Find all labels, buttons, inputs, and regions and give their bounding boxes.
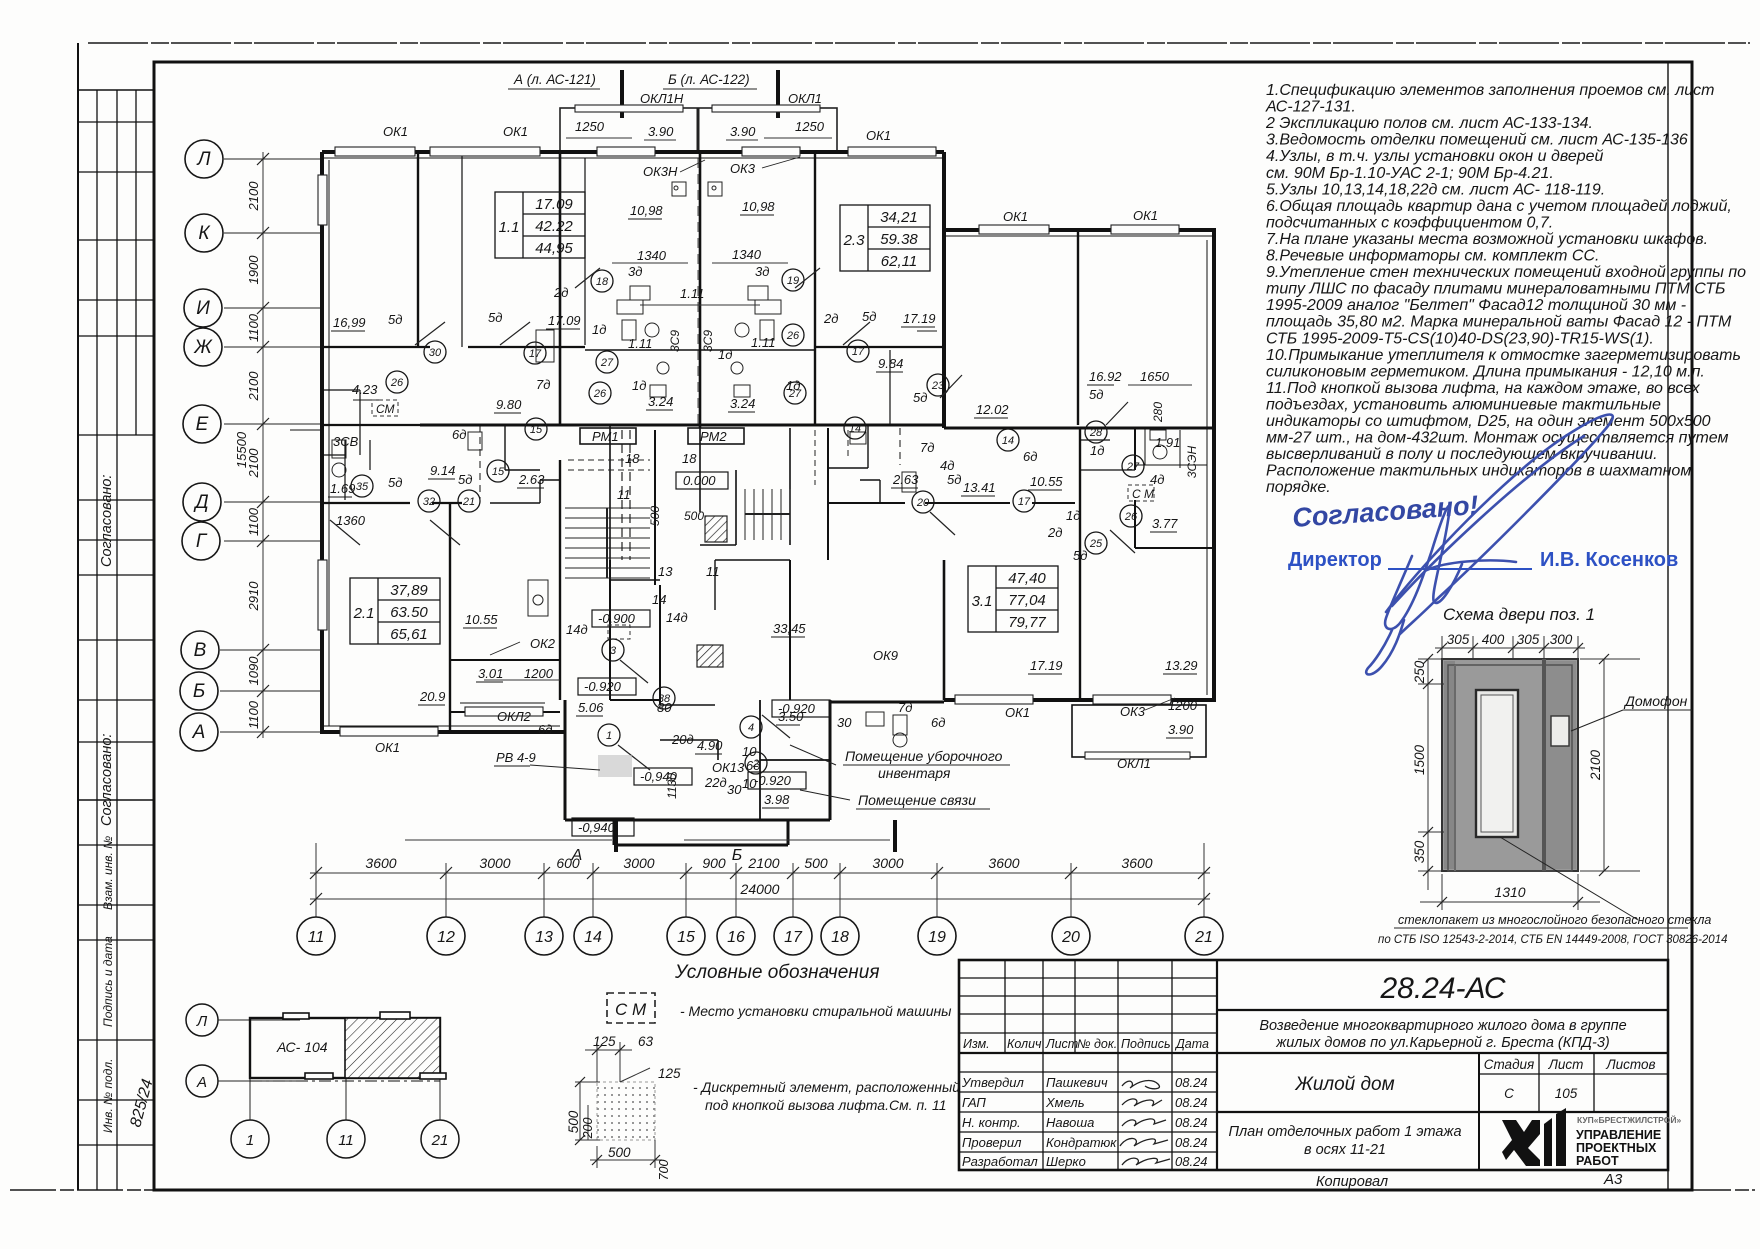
svg-text:в осях 11-21: в осях 11-21 [1304,1142,1386,1158]
svg-text:5д: 5д [388,312,402,327]
svg-text:47,40: 47,40 [1008,570,1046,587]
РМ1 РМ2 boxes [580,428,636,444]
svg-text:ОК13: ОК13 [712,760,745,775]
svg-text:№ док.: № док. [1077,1037,1117,1051]
svg-text:28: 28 [1089,427,1103,439]
svg-text:42.22: 42.22 [535,218,573,235]
svg-text:подсчитанных с коэффициентом 0: подсчитанных с коэффициентом 0,7. [1266,214,1553,231]
svg-text:жилых домов по ул.Карьерной г: жилых домов по ул.Карьерной г. Бреста (К… [1275,1035,1609,1051]
lower band: room 10.55 / ОК2 [450,659,560,661]
svg-text:Шерко: Шерко [1046,1154,1086,1169]
svg-text:1: 1 [606,730,612,742]
svg-text:18: 18 [831,929,849,946]
svg-text:-0,940: -0,940 [578,820,616,835]
svg-text:30: 30 [429,347,442,359]
svg-text:6д: 6д [538,722,552,737]
svg-text:2.3: 2.3 [843,232,866,249]
svg-text:500: 500 [804,855,828,871]
svg-text:5д: 5д [1073,548,1087,563]
svg-text:ОК9: ОК9 [873,648,898,663]
svg-text:13: 13 [658,564,673,579]
svg-text:Разработал: Разработал [962,1154,1038,1169]
leader text right of protrusion [845,748,1003,808]
intercom [1551,716,1569,746]
svg-text:17.19: 17.19 [903,311,936,326]
svg-text:350: 350 [1412,840,1427,863]
corridor band extra walls/fixtures [360,425,900,503]
svg-text:Согласовано:: Согласовано: [99,734,115,826]
svg-text:5д: 5д [1089,387,1103,402]
svg-text:6д: 6д [931,715,945,730]
Ж axis wall [322,346,430,348]
ticks [257,153,269,738]
svg-text:1.11: 1.11 [628,336,652,351]
svg-text:ОК1: ОК1 [866,128,891,143]
left signature table [959,960,1217,1170]
svg-text:3000: 3000 [872,855,903,871]
svg-text:10,98: 10,98 [742,199,775,214]
svg-text:1090: 1090 [246,656,261,686]
svg-text:ОК1: ОК1 [375,740,400,755]
svg-text:59.38: 59.38 [880,231,918,248]
svg-text:7д: 7д [898,700,912,715]
Стадия Лист Листов [1478,1053,1480,1112]
svg-text:3.24: 3.24 [648,394,673,409]
svg-text:Б: Б [732,847,742,864]
svg-text:ОК3: ОК3 [1120,704,1146,719]
svg-text:РМ2: РМ2 [700,429,727,444]
svg-text:400: 400 [1482,632,1505,647]
svg-text:08.24: 08.24 [1175,1135,1208,1150]
svg-text:500: 500 [648,506,662,526]
top outer wall [322,150,944,154]
svg-text:13.29: 13.29 [1165,658,1198,673]
svg-text:Колич: Колич [1007,1037,1042,1051]
svg-text:- Дискретный элемент, располож: - Дискретный элемент, расположенный [693,1079,960,1095]
svg-text:-0,940: -0,940 [640,769,678,784]
svg-text:под кнопкой вызова лифта.См. п: под кнопкой вызова лифта.См. п. 11 [705,1097,946,1113]
svg-text:20: 20 [1061,929,1080,946]
svg-text:ПРОЕКТНЫХ: ПРОЕКТНЫХ [1576,1141,1657,1155]
svg-text:Согласовано!: Согласовано! [1291,490,1479,533]
svg-text:1д: 1д [592,322,606,337]
window labels row [375,124,1158,775]
svg-text:- Место установки стиральной м: - Место установки стиральной машины [680,1003,952,1019]
room 2.1 walls [449,503,451,732]
svg-text:700: 700 [657,1160,671,1181]
svg-text:Лист: Лист [1548,1057,1584,1072]
svg-text:Взам. инв. №: Взам. инв. № [101,836,115,910]
axis circles [297,917,1223,955]
small door-swing ticks [330,268,1135,770]
svg-text:3С9: 3С9 [668,330,682,352]
svg-text:1д: 1д [718,347,732,362]
svg-text:3.1: 3.1 [972,593,993,610]
svg-text:9.80: 9.80 [496,397,522,412]
svg-text:мм-27 шт., на дом-432шт. Монта: мм-27 шт., на дом-432шт. Монтаж осуществ… [1266,430,1728,447]
svg-text:Дата: Дата [1174,1037,1209,1051]
svg-text:11: 11 [617,487,631,502]
right part [1217,1009,1668,1011]
svg-text:9.84: 9.84 [878,356,903,371]
svg-text:Ж: Ж [193,337,213,358]
svg-text:37,89: 37,89 [390,582,428,599]
svg-text:0.000: 0.000 [683,473,716,488]
svg-text:ОК1: ОК1 [503,124,528,139]
svg-text:Кондратюк: Кондратюк [1046,1135,1117,1150]
svg-text:2910: 2910 [246,581,261,612]
right stair walls [789,428,791,545]
svg-text:ОК2: ОК2 [530,636,556,651]
leader lines for window labels [490,157,1175,710]
svg-text:3.90: 3.90 [730,124,756,139]
top dim chain [1435,636,1585,658]
svg-text:В: В [194,640,207,661]
svg-text:17.09: 17.09 [548,313,581,328]
svg-text:3.01: 3.01 [478,666,503,681]
svg-text:1: 1 [246,1132,254,1149]
svg-text:28.24-АС: 28.24-АС [1379,972,1505,1005]
Е axis corridor wall [420,424,944,427]
svg-text:Помещение связи: Помещение связи [858,792,976,808]
svg-text:125: 125 [658,1066,681,1081]
left dim chain [1418,659,1444,890]
top balcony (loggia) box [560,108,837,152]
svg-text:4.23: 4.23 [352,382,378,397]
dim chain line 2 [310,898,1210,900]
svg-text:21: 21 [431,1132,449,1149]
svg-text:18: 18 [625,451,640,466]
rotated dim labels [234,181,261,729]
svg-text:12.02: 12.02 [976,402,1009,417]
svg-text:Утвердил: Утвердил [961,1075,1025,1090]
svg-text:ОК3Н: ОК3Н [643,164,678,179]
svg-text:АС- 104: АС- 104 [276,1039,328,1055]
СМ symbol [607,993,655,1023]
svg-text:2 Экспликацию полов см. лист А: 2 Экспликацию полов см. лист АС-133-134. [1265,115,1593,132]
bottom scan edge line [10,1189,1755,1191]
svg-text:30: 30 [727,782,742,797]
svg-text:Л: Л [196,1013,208,1030]
svg-text:33,45: 33,45 [773,621,806,636]
svg-text:15: 15 [492,466,505,478]
svg-text:3600: 3600 [1121,855,1152,871]
svg-text:14: 14 [849,423,861,435]
svg-text:27: 27 [788,388,802,400]
svg-text:2д: 2д [823,311,838,326]
svg-text:ОКЛ1: ОКЛ1 [788,91,822,106]
svg-text:3: 3 [610,645,617,657]
svg-text:3000: 3000 [623,855,654,871]
svg-text:20.9: 20.9 [419,689,445,704]
svg-text:34,21: 34,21 [880,209,918,226]
glass note [1500,837,1638,920]
svg-text:14д: 14д [566,622,588,637]
handwritten signatures in Подпись column [1120,1081,1170,1165]
svg-text:1360: 1360 [336,513,366,528]
svg-text:08.24: 08.24 [1175,1075,1208,1090]
svg-text:РВ 4-9: РВ 4-9 [496,750,536,765]
svg-text:ОКЛ1: ОКЛ1 [1117,756,1151,771]
svg-text:3д: 3д [628,264,642,279]
svg-text:И.В. Косенков: И.В. Косенков [1540,549,1678,571]
svg-text:3600: 3600 [365,855,396,871]
svg-text:стеклопакет из многослойного б: стеклопакет из многослойного безопасного… [1398,913,1711,927]
svg-text:1995-2009 аналог "Белтеп" Фаса: 1995-2009 аналог "Белтеп" Фасад12 толщин… [1266,297,1686,314]
right inner double line [1667,62,1669,1190]
svg-text:26: 26 [1124,511,1138,523]
svg-text:РАБОТ: РАБОТ [1576,1154,1619,1168]
door body [1442,659,1578,871]
svg-text:Г: Г [196,531,208,552]
verticals from circles to lines [316,843,1204,917]
svg-text:4: 4 [748,722,754,734]
svg-text:Б: Б [193,681,205,702]
svg-text:20д: 20д [671,732,694,747]
svg-text:200: 200 [581,1118,595,1140]
svg-text:6д: 6д [452,427,466,442]
svg-text:1.1: 1.1 [499,219,520,236]
svg-text:Домофон: Домофон [1623,693,1688,709]
svg-text:Л: Л [195,149,211,170]
svg-text:63.50: 63.50 [390,604,428,621]
rotated small labels [648,330,1199,799]
right dim chain 2100 [1580,659,1640,871]
svg-text:3.77: 3.77 [1152,516,1178,531]
svg-text:5д: 5д [947,472,961,487]
svg-text:26: 26 [390,377,404,389]
svg-text:2100: 2100 [246,181,261,212]
dim line 1340 pair [484,263,1192,680]
svg-text:Согласовано:: Согласовано: [99,475,115,567]
svg-text:3СЭН: 3СЭН [1185,446,1199,479]
svg-text:СМ: СМ [376,402,395,416]
building outline [250,1018,440,1078]
svg-text:АС-127-131.: АС-127-131. [1265,99,1356,116]
svg-text:5.06: 5.06 [578,700,604,715]
right wing bottom wall [944,698,1214,702]
svg-text:6.Общая площадь квартир дана с: 6.Общая площадь квартир дана с учетом пл… [1266,198,1732,215]
elevator / shaft [699,428,701,512]
svg-text:1д: 1д [632,378,646,393]
svg-text:Помещение уборочного: Помещение уборочного [845,748,1003,764]
svg-text:14: 14 [1002,435,1014,447]
svg-text:23: 23 [931,380,945,392]
svg-text:1900: 1900 [246,255,261,285]
svg-text:3.90: 3.90 [648,124,674,139]
svg-text:С М: С М [615,1000,647,1019]
svg-text:22д: 22д [704,775,727,790]
svg-text:3.24: 3.24 [730,396,755,411]
svg-text:1.91: 1.91 [1155,435,1180,450]
svg-text:1250: 1250 [795,119,825,134]
svg-text:ОК1: ОК1 [1003,209,1028,224]
svg-text:КУП«БРЕСТЖИЛСТРОЙ»: КУП«БРЕСТЖИЛСТРОЙ» [1577,1114,1681,1125]
svg-text:5д: 5д [862,309,876,324]
mid-right corridor walls [828,502,905,504]
svg-text:Пашкевич: Пашкевич [1046,1075,1108,1090]
svg-text:Копировал: Копировал [1316,1174,1388,1190]
svg-text:500: 500 [566,1110,581,1133]
svg-text:17.09: 17.09 [535,196,573,213]
svg-text:ОКЛ1Н: ОКЛ1Н [640,91,684,106]
svg-text:типу ЛШС по фасаду плитами мин: типу ЛШС по фасаду плитами минераловатны… [1266,281,1725,298]
right outer wall [1212,230,1216,702]
svg-text:9.14: 9.14 [430,463,455,478]
svg-text:2100: 2100 [246,371,261,402]
svg-text:Схема двери поз. 1: Схема двери поз. 1 [1443,605,1595,624]
svg-text:17: 17 [784,929,803,946]
СМ boxes on plan [372,400,1154,639]
svg-text:14: 14 [652,592,666,607]
section cut marks [620,70,624,118]
small kitchen walls [322,389,360,391]
svg-text:3.98: 3.98 [764,792,790,807]
svg-text:А3: А3 [1603,1171,1623,1188]
svg-text:1250: 1250 [575,119,605,134]
svg-text:305: 305 [1447,632,1470,647]
svg-text:см. 90М Бр-1.10-УАС 2-1; 90М Б: см. 90М Бр-1.10-УАС 2-1; 90М Бр-4.21. [1266,165,1554,182]
svg-text:7д: 7д [920,440,934,455]
apartment tables [350,192,1058,644]
step vertical right of main block [942,152,946,428]
svg-text:СТБ 1995-2009-Т5-CS(10)40-DS(2: СТБ 1995-2009-Т5-CS(10)40-DS(23,90)-TR15… [1266,330,1654,347]
svg-text:Условные обозначения: Условные обозначения [674,962,879,983]
svg-text:3.90: 3.90 [1168,722,1194,737]
svg-text:Подпись: Подпись [1121,1037,1171,1051]
svg-text:10.55: 10.55 [465,612,498,627]
svg-text:1100: 1100 [246,700,261,729]
svg-text:32: 32 [423,496,435,508]
svg-text:21: 21 [462,496,475,508]
svg-text:Стадия: Стадия [1484,1057,1535,1072]
svg-text:2: 2 [752,758,759,770]
svg-text:2100: 2100 [747,855,779,871]
underlines for area labels [328,215,1197,808]
vertical dim chain [262,152,264,738]
svg-text:высверливаний в полу и последу: высверливаний в полу и последующем вкруч… [1266,446,1658,463]
svg-text:Подпись и дата: Подпись и дата [101,936,115,1027]
level mark boxes [572,472,830,836]
svg-text:Н. контр.: Н. контр. [962,1115,1021,1130]
svg-text:4.Узлы, в т.ч. узлы установки: 4.Узлы, в т.ч. узлы установки окон и две… [1266,148,1604,165]
svg-text:900: 900 [702,855,726,871]
svg-text:17: 17 [1018,496,1031,508]
svg-text:1.Спецификацию элементов запол: 1.Спецификацию элементов заполнения прое… [1266,82,1715,99]
svg-text:1200: 1200 [1168,698,1198,713]
svg-text:1100: 1100 [246,313,261,342]
svg-text:Расположение тактильных индика: Расположение тактильных индикаторов в ша… [1266,463,1691,480]
svg-text:ОКЛ2: ОКЛ2 [497,709,532,724]
left outer wall [320,152,324,734]
lower vestibule step [613,820,616,845]
svg-text:План отделочных работ 1 этажа: План отделочных работ 1 этажа [1228,1124,1461,1140]
svg-text:5д: 5д [388,475,402,490]
svg-text:15500: 15500 [234,431,249,468]
main inner frame [154,62,1692,1190]
glass [1476,690,1518,837]
svg-text:11: 11 [706,564,720,579]
svg-text:2.63: 2.63 [892,472,919,487]
svg-text:12: 12 [437,929,455,946]
svg-text:-0.900: -0.900 [598,611,636,626]
right wing top wall [944,228,1216,232]
loggia bottom right [1072,705,1206,757]
kitchen fixtures [332,182,1167,747]
svg-text:5.Узлы 10,13,14,18,22д см. лис: 5.Узлы 10,13,14,18,22д см. лист АС- 118-… [1266,181,1605,198]
svg-text:18: 18 [596,276,609,288]
svg-text:13.41: 13.41 [963,480,996,495]
svg-text:4.90: 4.90 [697,738,723,753]
svg-text:2д: 2д [553,285,568,300]
svg-text:2.1: 2.1 [353,605,375,622]
dim chain line 1 [310,872,1210,874]
svg-text:7д: 7д [536,377,550,392]
svg-text:5д: 5д [458,472,472,487]
ticks on dim lines [310,867,1210,905]
svg-text:280: 280 [1151,402,1165,423]
svg-text:Навоша: Навоша [1046,1115,1094,1130]
svg-text:11.Под кнопкой вызова лифта, н: 11.Под кнопкой вызова лифта, на каждом э… [1266,380,1701,397]
top section labels [513,72,750,87]
svg-text:И: И [196,298,210,319]
svg-text:2д: 2д [1047,525,1062,540]
svg-text:Е: Е [196,414,209,435]
svg-text:08.24: 08.24 [1175,1095,1208,1110]
svg-text:ОК1: ОК1 [1133,208,1158,223]
svg-text:105: 105 [1555,1086,1578,1101]
svg-text:Проверил: Проверил [962,1135,1022,1150]
svg-text:38: 38 [658,693,671,705]
svg-text:1200: 1200 [524,666,554,681]
svg-text:С: С [1504,1086,1514,1101]
svg-text:ОК1: ОК1 [383,124,408,139]
lower band corridor walls [322,454,345,456]
svg-text:ОК3: ОК3 [730,161,756,176]
svg-text:1.11: 1.11 [680,286,704,301]
svg-text:5д: 5д [488,310,502,325]
svg-text:25: 25 [1089,538,1103,550]
svg-text:1д: 1д [1090,443,1104,458]
svg-text:Жилой дом: Жилой дом [1294,1074,1394,1095]
svg-text:44,95: 44,95 [535,240,573,257]
stairs block left [609,425,611,580]
svg-text:19: 19 [928,929,946,946]
svg-text:17: 17 [852,346,865,358]
circled position numbers [351,269,1144,774]
svg-text:21: 21 [1194,929,1213,946]
svg-text:6д: 6д [1023,449,1037,464]
svg-text:2.63: 2.63 [518,472,545,487]
svg-text:24000: 24000 [740,881,780,897]
discrete element symbol [597,1082,655,1140]
svg-text:А: А [196,1074,207,1091]
entrance protrusion [564,700,567,820]
svg-text:15: 15 [530,424,543,436]
right wing interior [1077,230,1079,425]
svg-text:08.24: 08.24 [1175,1115,1208,1130]
svg-text:19: 19 [787,275,799,287]
svg-text:Хмель: Хмель [1045,1095,1085,1110]
svg-text:инвентаря: инвентаря [878,765,951,781]
svg-text:26: 26 [786,330,800,342]
А Б marks above [571,847,743,864]
svg-text:9.Утепление стен технических п: 9.Утепление стен технических помещений в… [1266,264,1746,281]
bottom mid-right wall [830,701,944,704]
area/dim labels [330,199,1198,807]
svg-text:ОК1: ОК1 [1005,705,1030,720]
svg-text:10.55: 10.55 [1030,474,1063,489]
